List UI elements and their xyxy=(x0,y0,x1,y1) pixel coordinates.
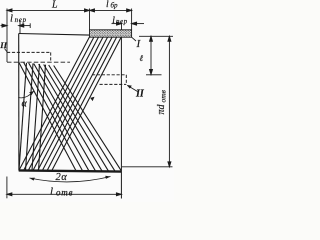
svg-text:пер: пер xyxy=(116,17,128,25)
svg-text:бр: бр xyxy=(111,2,119,10)
svg-text:отв: отв xyxy=(159,89,168,102)
svg-text:отв: отв xyxy=(56,187,73,197)
svg-text:II: II xyxy=(0,40,8,50)
svg-text:l: l xyxy=(10,14,13,25)
svg-text:α: α xyxy=(22,99,28,110)
svg-text:πd: πd xyxy=(156,103,167,114)
svg-text:2α: 2α xyxy=(56,172,68,183)
svg-text:l: l xyxy=(106,0,109,10)
svg-text:II: II xyxy=(135,89,145,100)
svg-text:ℓ: ℓ xyxy=(140,53,144,63)
svg-text:l: l xyxy=(112,16,115,26)
svg-text:L: L xyxy=(51,0,58,11)
svg-text:пер: пер xyxy=(15,16,27,24)
svg-text:l: l xyxy=(50,186,53,198)
